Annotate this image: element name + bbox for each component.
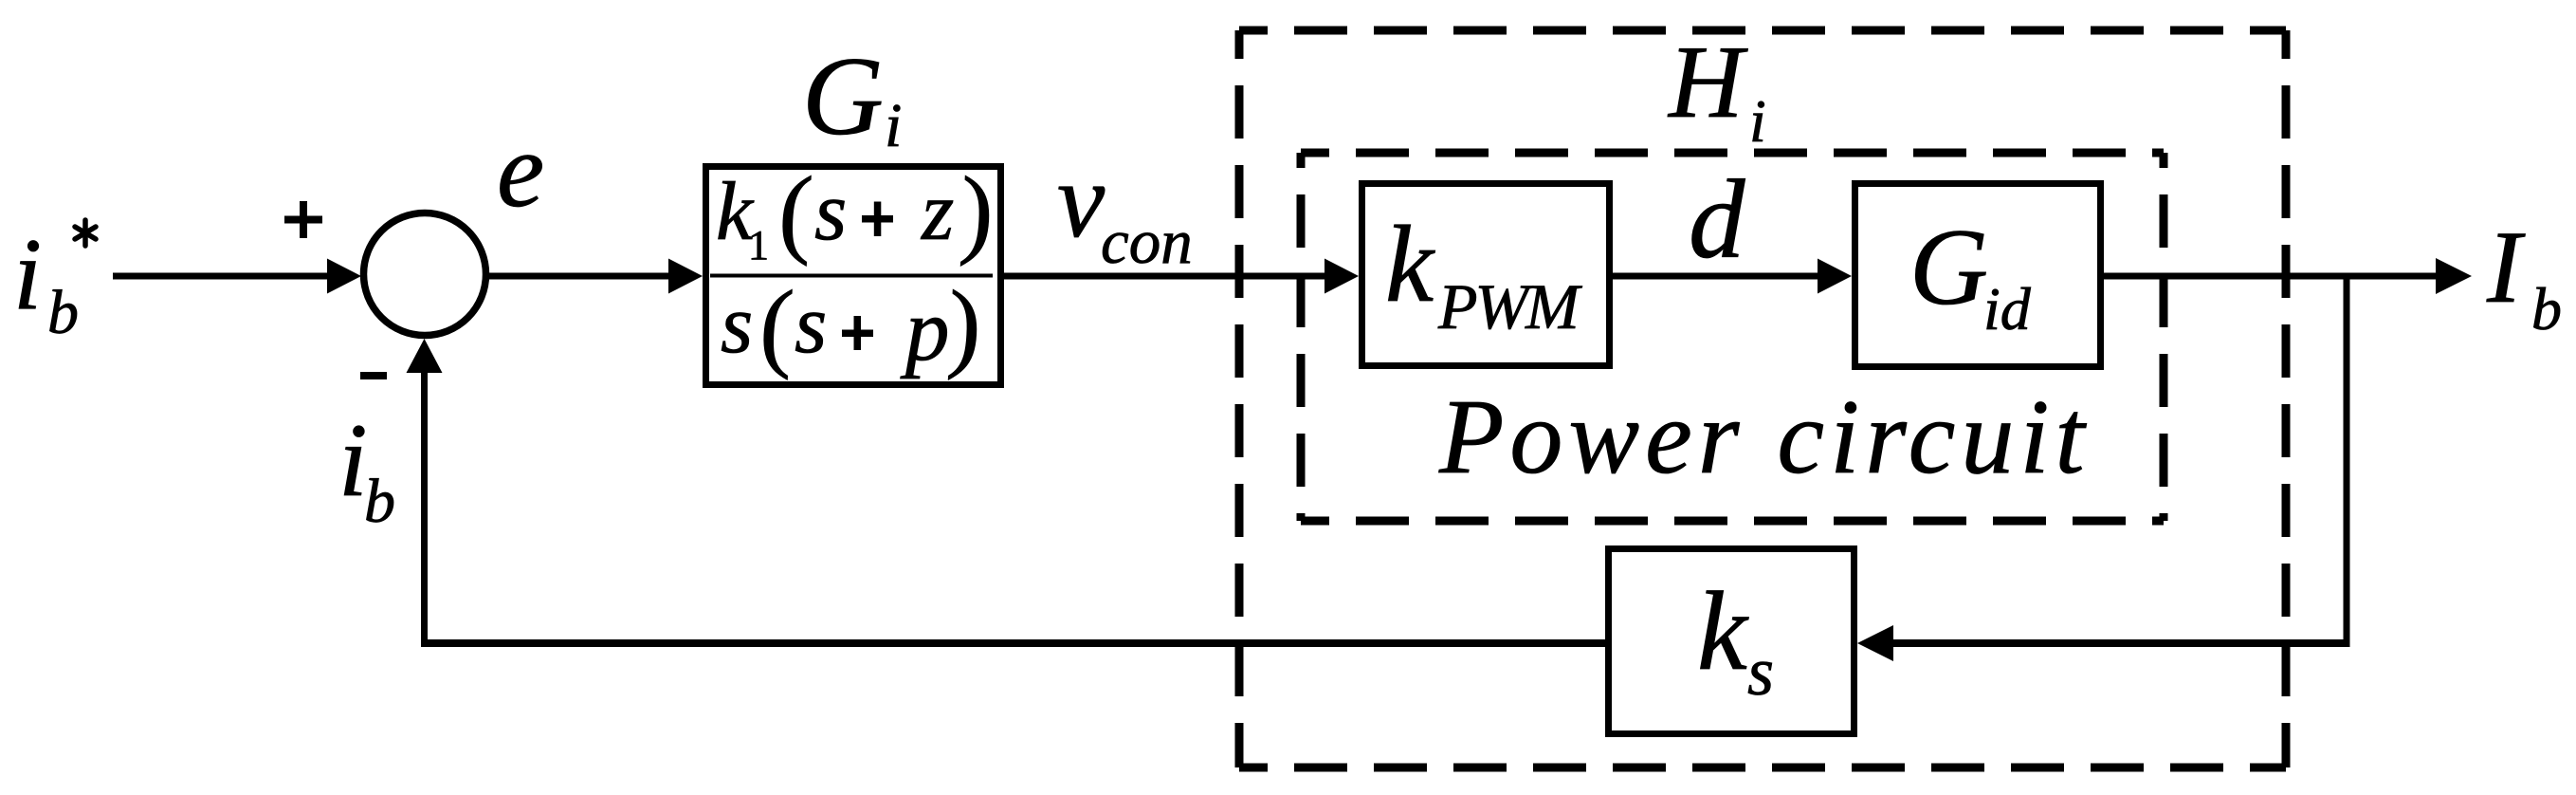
node v_con: [1057, 141, 1193, 277]
svg-text:k: k: [1385, 204, 1435, 324]
svg-text:(: (: [758, 269, 796, 380]
svg-text:id: id: [1983, 275, 2032, 342]
wire d kPWM to Gid: [1610, 259, 1852, 294]
node d: [1689, 157, 1745, 282]
node I_b: [2486, 210, 2562, 342]
wire Gi to kPWM: [1004, 259, 1359, 294]
svg-text:s: s: [721, 279, 753, 371]
svg-text:b: b: [364, 467, 395, 536]
plus sign at summing junction: [284, 201, 322, 238]
svg-text:1: 1: [748, 222, 769, 268]
wire output branch down: [2344, 276, 2350, 647]
wire summing junction to Gi block: [485, 259, 703, 294]
block k_s: [1609, 549, 1854, 734]
label k_s: [1697, 568, 1774, 710]
summing junction: [364, 213, 486, 336]
svg-text:b: b: [2531, 275, 2562, 342]
svg-text:k: k: [1697, 568, 1749, 693]
wire feedback up arrow: [407, 339, 443, 373]
node e: [497, 111, 544, 230]
svg-text:i: i: [13, 218, 42, 331]
svg-text:(: (: [776, 156, 815, 267]
block G_i: [706, 167, 1001, 385]
svg-text:i: i: [338, 402, 368, 518]
block G_id: [1855, 184, 2101, 367]
svg-text:s: s: [795, 279, 827, 371]
svg-text:d: d: [1689, 157, 1745, 282]
wire output to I_b: [2101, 258, 2472, 294]
node i_b* input label: [13, 218, 96, 347]
label G_i: [802, 33, 902, 160]
svg-text:s: s: [1747, 634, 1774, 710]
svg-text:G: G: [1909, 207, 1988, 327]
svg-text:I: I: [2486, 210, 2526, 324]
svg-text:s: s: [814, 166, 847, 258]
svg-text:b: b: [47, 278, 79, 347]
block k_PWM: [1362, 184, 1610, 366]
wire k_s to summing junction: [421, 370, 1605, 647]
svg-text:): ): [958, 156, 996, 267]
svg-text:Power circuit: Power circuit: [1438, 379, 2091, 496]
wire input arrow: [113, 259, 361, 294]
svg-text:): ): [945, 269, 984, 380]
label Power circuit: [1438, 379, 2091, 496]
svg-text:i: i: [885, 91, 902, 160]
svg-text:con: con: [1101, 207, 1193, 277]
label H_i: [1667, 25, 1766, 155]
label k_PWM: [1385, 204, 1582, 342]
svg-text:e: e: [497, 111, 544, 230]
wire feedback into k_s: [1857, 625, 2350, 661]
value k1(s+z)/s(s+p) transfer function: [710, 156, 996, 380]
label G_id: [1909, 207, 2032, 342]
svg-text:H: H: [1667, 25, 1748, 139]
outer dashed box H_i: [1239, 30, 2286, 767]
minus sign: [360, 372, 387, 379]
node i_b feedback label: [338, 402, 395, 536]
svg-text:i: i: [1749, 87, 1766, 155]
inner dashed box Power circuit: [1301, 153, 2164, 521]
svg-text:v: v: [1057, 141, 1105, 260]
svg-text:PWM: PWM: [1437, 270, 1582, 342]
svg-text:p: p: [900, 282, 950, 379]
svg-text:G: G: [802, 33, 884, 158]
svg-text:z: z: [921, 166, 954, 258]
